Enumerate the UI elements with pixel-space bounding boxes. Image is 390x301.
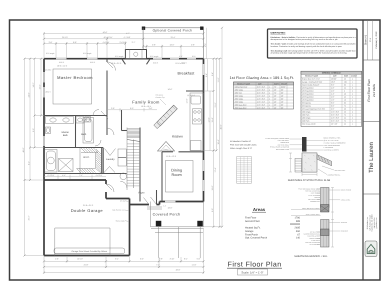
header sill detail (291, 188, 351, 259)
svg-text:3050 S: 3050 S (59, 61, 65, 64)
bottom dims (44, 228, 204, 273)
family room interior dim (107, 108, 157, 112)
svg-text:STEEL LINTEL: STEEL LINTEL (341, 199, 351, 201)
opening schedule table (301, 71, 362, 126)
svg-text:FLASHING w/ DRIP: FLASHING w/ DRIP (308, 236, 321, 238)
svg-text:1st Floor Glazing Area = 189.1: 1st Floor Glazing Area = 189.1 Sq.Ft. (230, 76, 295, 80)
laundry bifold doors (105, 149, 116, 156)
title block: company address (366, 214, 378, 231)
9/12 angle labels (46, 52, 196, 58)
title block: sheet number cell (364, 20, 378, 60)
svg-text:21'-0": 21'-0" (214, 102, 217, 107)
master bath toilet (46, 127, 51, 134)
garage right wall upper (105, 180, 107, 199)
left dims (25, 59, 45, 256)
fireplace (122, 50, 151, 65)
garage attic note leaders (125, 201, 129, 222)
svg-text:all window and door rough open: all window and door rough openings shall… (271, 52, 348, 55)
master bedroom door gap (106, 62, 108, 71)
wic shelf edge lines (79, 148, 81, 173)
svg-text:Master Bedroom: Master Bedroom (57, 75, 93, 80)
svg-text:35'-10": 35'-10" (62, 36, 68, 39)
dining top wall (162, 151, 173, 153)
svg-text:Kitchen: Kitchen (172, 134, 183, 138)
hall wall (106, 116, 108, 136)
glazing table (234, 82, 294, 109)
svg-text:49'-8": 49'-8" (22, 147, 25, 152)
detail dim bottom (302, 173, 317, 176)
windows: left wall (43, 72, 45, 98)
svg-text:4'-0 3/4": 4'-0 3/4" (96, 174, 103, 177)
svg-text:985: 985 (296, 220, 301, 223)
svg-text:9/12 angle: 9/12 angle (83, 52, 91, 55)
svg-text:11'-6": 11'-6" (192, 263, 197, 266)
svg-text:19'-8 x 16'-4: 19'-8 x 16'-4 (141, 105, 151, 108)
svg-text:46'-6": 46'-6" (176, 269, 181, 272)
exterior wall: front (foyer) (130, 204, 160, 206)
svg-text:Pantry: Pantry (164, 148, 169, 151)
bath dividing wall (75, 116, 77, 148)
svg-text:16'-0": 16'-0" (170, 44, 175, 47)
svg-text:2'-8": 2'-8" (152, 44, 156, 47)
dining left wall (161, 152, 163, 202)
svg-text:14'-2": 14'-2" (32, 82, 35, 87)
svg-text:4'-7": 4'-7" (126, 32, 130, 35)
svg-text:The Lauren: The Lauren (368, 142, 375, 173)
dining label (171, 168, 182, 177)
dining rug (166, 161, 194, 193)
wic right wall (101, 148, 103, 174)
exterior wall: front (dining) (160, 201, 204, 203)
slab concrete body (302, 153, 317, 172)
svg-text:7/16" OSB SHEATHING: 7/16" OSB SHEATHING (305, 242, 320, 244)
kitchen breakfast divider (186, 90, 204, 92)
bath area bottom wall (44, 147, 76, 149)
wall section bar upper (321, 188, 330, 213)
corner pantry (158, 142, 175, 152)
svg-text:Dining: Dining (171, 168, 182, 172)
exterior wall: right (203, 59, 205, 202)
svg-text:TYVEK OR EQUAL HOUSE WRAP: TYVEK OR EQUAL HOUSE WRAP (298, 189, 320, 191)
hall door arcs (95, 140, 101, 146)
master bedroom tray ceiling (53, 69, 92, 104)
svg-text:2'-8": 2'-8" (191, 44, 195, 47)
svg-text:Second Floor: Second Floor (245, 220, 260, 223)
wic shelving hatch bottom band (77, 169, 96, 174)
svg-text:BRICK MOLD ON HEADER: BRICK MOLD ON HEADER (302, 208, 319, 210)
svg-text:SHEATHING AT STRUCTURAL SLAB: SHEATHING AT STRUCTURAL SLAB (288, 179, 331, 182)
windows: top wall (56, 58, 196, 60)
svg-text:21'-8": 21'-8" (84, 263, 89, 266)
svg-text:Areas: Areas (253, 207, 266, 212)
svg-text:10'-0 x 8'-4: 10'-0 x 8'-4 (175, 62, 184, 65)
garden tub (45, 150, 57, 173)
svg-text:WINDOW UNIT: WINDOW UNIT (310, 201, 320, 203)
porch post top-left (142, 27, 145, 30)
svg-text:4'-4": 4'-4" (62, 174, 66, 177)
svg-text:Garage Door Mount Provided By: Garage Door Mount Provided By Others (72, 250, 108, 253)
garage door note (54, 248, 125, 254)
front steps (147, 206, 162, 208)
porch post right (197, 221, 203, 227)
hall closet walls (101, 111, 108, 119)
svg-text:15'-4": 15'-4" (211, 117, 214, 122)
svg-text:25'-2": 25'-2" (27, 215, 30, 220)
svg-text:Breakfast: Breakfast (178, 72, 195, 76)
svg-text:w/ 1/2" PLYWOOD: w/ 1/2" PLYWOOD (308, 195, 320, 197)
svg-text:1'-4": 1'-4" (163, 204, 167, 207)
master bedroom door arc (107, 62, 116, 71)
svg-text:3050 S: 3050 S (90, 61, 96, 64)
exterior wall: top (44, 58, 204, 60)
svg-text:12'-8": 12'-8" (208, 117, 211, 122)
front door opening (149, 203, 157, 206)
detail dim line left (289, 153, 292, 172)
svg-text:6'-0": 6'-0" (140, 258, 144, 261)
svg-text:SPACER: SPACER (314, 197, 320, 199)
svg-text:4'-6": 4'-6" (55, 258, 59, 261)
title block strip (363, 20, 380, 280)
svg-text:46'-6": 46'-6" (103, 31, 108, 34)
svg-text:16'-0": 16'-0" (168, 88, 173, 91)
svg-text:Room: Room (172, 173, 182, 177)
drawing title (227, 261, 282, 276)
svg-text:Foyer: Foyer (138, 192, 144, 195)
laundry left wall (102, 148, 104, 174)
svg-text:7'-4": 7'-4" (156, 263, 160, 266)
foyer side wall (156, 190, 158, 205)
svg-text:Optional Covered Porch: Optional Covered Porch (153, 29, 193, 33)
svg-text:7/16" OSB SHEATHING: 7/16" OSB SHEATHING (305, 191, 320, 193)
svg-text:9'-0": 9'-0" (204, 43, 207, 47)
svg-text:11'-6 x 13'-0: 11'-6 x 13'-0 (166, 155, 176, 158)
svg-text:21'-4": 21'-4" (171, 36, 176, 39)
svg-text:Pine 2x10 with Double Jacks: Pine 2x10 with Double Jacks (230, 144, 257, 147)
bath2 tub (83, 118, 94, 144)
svg-text:11'-0": 11'-0" (217, 77, 220, 82)
garage interior dims (44, 175, 106, 179)
wic top wall (76, 147, 104, 149)
laundry washer dryer (118, 149, 126, 166)
slab detail (265, 137, 345, 182)
master shower (59, 159, 74, 172)
svg-text:JSJ: JSJ (369, 251, 374, 254)
section dim line right (331, 188, 334, 248)
top dims (44, 28, 204, 59)
svg-text:February 1, 2018: February 1, 2018 (375, 31, 378, 48)
svg-text:2'-8": 2'-8" (49, 41, 53, 44)
range (193, 109, 202, 124)
svg-text:Sheet #1: Sheet #1 (364, 34, 367, 45)
window labels (45, 61, 196, 97)
svg-text:17'-4": 17'-4" (214, 167, 217, 172)
svg-text:4'-7 5/8": 4'-7 5/8" (124, 36, 131, 39)
svg-text:Opt. Covered Porch: Opt. Covered Porch (245, 237, 268, 240)
svg-text:3050 S: 3050 S (153, 62, 159, 65)
stairs (120, 128, 140, 202)
garage jog wall (106, 198, 130, 200)
svg-text:8'-4": 8'-4" (211, 72, 214, 76)
refrigerator (191, 141, 202, 151)
exterior wall: left (43, 59, 45, 256)
kitchen counters right (190, 93, 204, 151)
svg-text:First Floor Plan: First Floor Plan (228, 261, 282, 269)
svg-text:7'-4": 7'-4" (79, 174, 83, 177)
svg-text:locations. Contractor to verif: locations. Contractor to verify soil bea… (271, 45, 343, 48)
svg-text:Covered Porch: Covered Porch (153, 212, 181, 216)
garage entry door (105, 184, 107, 192)
kitchen angled counter (154, 105, 178, 128)
svg-text:8'-0": 8'-0" (32, 128, 35, 132)
nailing grid (237, 157, 252, 184)
svg-text:Stone Angle: Stone Angle (116, 219, 125, 222)
svg-text:9/12 angle: 9/12 angle (46, 52, 54, 55)
svg-text:9/12 angle: 9/12 angle (150, 55, 158, 58)
wic shelving hatch right band (96, 149, 101, 173)
svg-text:ROWLOCK: ROWLOCK (341, 231, 348, 233)
svg-text:2'-7": 2'-7" (132, 41, 136, 44)
svg-text:Bath: Bath (63, 134, 69, 137)
svg-text:140: 140 (296, 237, 301, 240)
svg-text:16'-0": 16'-0" (168, 206, 173, 209)
svg-text:First Floor Plan: First Floor Plan (367, 79, 371, 102)
svg-text:SEALANT: SEALANT (341, 222, 347, 224)
svg-text:45'-8": 45'-8" (219, 124, 222, 129)
detail leaders lower right (322, 166, 334, 170)
master bath vanity (46, 117, 74, 124)
svg-text:Family Room: Family Room (132, 100, 160, 105)
master bath label (62, 131, 70, 137)
svg-text:16'-0 x 14'-2: 16'-0 x 14'-2 (57, 65, 67, 68)
svg-text:8'-8": 8'-8" (73, 41, 77, 44)
bath area / garage wall (44, 173, 127, 175)
svg-text:3'-10": 3'-10" (170, 258, 175, 261)
sloped brick ledge (317, 155, 332, 166)
svg-text:40'-10 3/4": 40'-10 3/4" (103, 36, 112, 39)
covered porch slab (151, 202, 204, 259)
bath2 vanity (76, 117, 84, 124)
svg-text:12'-8": 12'-8" (186, 98, 189, 103)
right dims (204, 28, 223, 227)
counter annotation (156, 94, 167, 105)
porch depth dim (206, 28, 208, 59)
svg-text:4'-6 1/4": 4'-6 1/4" (103, 41, 110, 44)
svg-text:8'-0": 8'-0" (130, 107, 134, 110)
svg-text:19'-0": 19'-0" (38, 84, 41, 89)
areas list (245, 207, 301, 240)
svg-text:16' clg: 16' clg (120, 200, 125, 203)
svg-text:discrepancies to the designer: discrepancies to the designer before pro… (271, 38, 339, 41)
svg-text:8'-4": 8'-4" (184, 258, 188, 261)
interior dim verticals near breakfast (208, 59, 211, 151)
svg-text:SEAL / CAULK JOINT: SEAL / CAULK JOINT (306, 214, 320, 216)
svg-text:Double Garage: Double Garage (71, 208, 104, 213)
master bedroom right wall (106, 59, 108, 116)
svg-text:38'-4": 38'-4" (217, 139, 220, 144)
svg-text:3'-6": 3'-6" (111, 107, 115, 110)
svg-text:9/12 angle: 9/12 angle (115, 55, 123, 58)
garage top wall (44, 179, 106, 181)
svg-text:10'-10": 10'-10" (77, 258, 83, 261)
svg-text:8'-0": 8'-0" (211, 208, 214, 212)
dimension tick marks (24, 27, 224, 274)
svg-text:2850 S: 2850 S (45, 91, 51, 94)
svg-text:SHEATHING HEADER + SILL: SHEATHING HEADER + SILL (294, 255, 328, 258)
master bedroom / bath wall (44, 115, 107, 117)
svg-text:19'-8": 19'-8" (211, 185, 214, 190)
svg-text:16'-8 x 21'-0: 16'-8 x 21'-0 (111, 62, 121, 65)
svg-text:jsjbuilders.com: jsjbuilders.com (375, 217, 378, 230)
headers note (230, 140, 257, 150)
brick courses left (295, 158, 302, 172)
porch post left (156, 221, 162, 227)
svg-text:Bath: Bath (81, 133, 87, 136)
svg-text:Gas Service Loc: Gas Service Loc (112, 209, 125, 212)
title block: JSJ logo (365, 241, 377, 257)
svg-text:Counter Top: Counter Top (156, 96, 165, 99)
svg-text:6'-3 3/4": 6'-3 3/4" (48, 174, 55, 177)
svg-text:USER NOTES:: USER NOTES: (271, 32, 286, 35)
wic shelving hatch top band (81, 148, 98, 153)
svg-text:8'-2": 8'-2" (27, 161, 30, 165)
svg-text:(2) 2850: (2) 2850 (45, 69, 51, 72)
svg-text:8'-4": 8'-4" (205, 73, 208, 77)
svg-text:BRICK VENEER: BRICK VENEER (341, 190, 351, 192)
svg-text:9/12: 9/12 (192, 55, 196, 58)
svg-text:2x4 Walls: 2x4 Walls (372, 84, 376, 97)
svg-text:W.I.C.: W.I.C. (83, 156, 90, 159)
garage door recess (55, 228, 110, 256)
svg-text:24'-8": 24'-8" (27, 92, 30, 97)
misc small dims in plan (57, 62, 189, 209)
svg-text:21'-8 x 21'-2: 21'-8 x 21'-2 (83, 204, 93, 207)
svg-text:1" AIR SPACE: 1" AIR SPACE (311, 240, 320, 242)
svg-text:5'-6": 5'-6" (197, 258, 201, 261)
porch post top-right (200, 27, 203, 30)
front door leaf (144, 198, 150, 205)
garage right wall lower (129, 199, 131, 256)
windows: right wall (202, 64, 204, 191)
title block: plan name cell (367, 79, 376, 102)
svg-text:When Length Over 6'-0": When Length Over 6'-0" (230, 147, 252, 150)
bath2 toilet (85, 117, 91, 123)
svg-text:Scale: 1/4" = 1'-0": Scale: 1/4" = 1'-0" (241, 270, 263, 274)
garage bottom wall (44, 255, 130, 257)
svg-text:5'-4": 5'-4" (115, 258, 119, 261)
svg-text:Laundry: Laundry (106, 158, 115, 161)
svg-text:All Headers Double #2: All Headers Double #2 (230, 140, 252, 143)
wall section bar lower (321, 220, 330, 248)
svg-text:(2) 2850 S: (2) 2850 S (187, 94, 196, 97)
optional covered porch outline (143, 28, 203, 59)
svg-text:SLOPED ROWLOCK SILL: SLOPED ROWLOCK SILL (304, 234, 321, 236)
